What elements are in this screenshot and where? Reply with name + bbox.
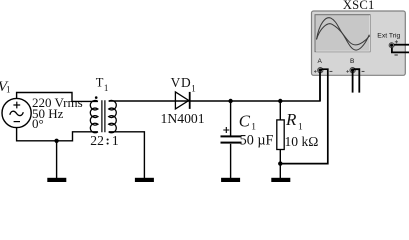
scope waveform trace 1 [317, 18, 370, 50]
svg-text:1: 1 [298, 122, 303, 132]
svg-text::: : [106, 132, 110, 147]
wire R1 bottom [279, 150, 281, 179]
node junction top of R1 [278, 99, 282, 103]
scope waveform trace 2 [317, 24, 370, 45]
svg-text:1: 1 [251, 122, 256, 132]
capacitor C1 plates [221, 135, 242, 143]
node junction R1 bottom [278, 161, 282, 165]
svg-text:0°: 0° [32, 116, 44, 131]
wire ground tap V1 [56, 141, 58, 179]
wire Ext Trig + off-canvas [394, 44, 409, 46]
diode VD1 [175, 92, 189, 109]
svg-text:T: T [96, 75, 104, 89]
svg-text:B: B [350, 58, 354, 65]
svg-text:22: 22 [90, 133, 104, 148]
svg-text:1: 1 [112, 134, 119, 149]
wire A+ lower segment overlay [319, 72, 321, 101]
terminal B [346, 68, 364, 73]
wire B+ stub [352, 71, 354, 93]
polarity + of C1 [223, 127, 229, 133]
wire Ext Trig - off-canvas [392, 48, 409, 53]
phase dot primary [95, 96, 98, 99]
wire secondary bottom to ground [109, 132, 145, 179]
svg-text:10 kΩ: 10 kΩ [285, 134, 319, 149]
wire top rail: secondary top to scope A+ [109, 72, 320, 101]
svg-text:C: C [239, 112, 251, 131]
wire C1 top [230, 101, 232, 136]
svg-text:R: R [285, 110, 297, 129]
svg-text:A: A [318, 58, 323, 65]
node junction top of C1 [228, 99, 232, 103]
oscilloscope XSC1 body [312, 11, 406, 75]
transformer T1 primary winding [90, 100, 98, 132]
wire source top to transformer primary top [17, 93, 98, 102]
resistor R1 body [277, 120, 284, 150]
svg-text:1: 1 [104, 83, 109, 93]
wire B- stub [354, 69, 360, 92]
wire A- : scope to R1 bottom [280, 69, 328, 163]
ground under C1 [221, 178, 240, 182]
transformer T1 secondary winding [109, 100, 117, 132]
Ext Trig terminal [389, 40, 398, 55]
svg-text:1: 1 [6, 84, 11, 94]
ground under V1 [47, 178, 66, 182]
transformer core lines [102, 100, 105, 132]
oscilloscope screen [315, 15, 370, 52]
terminal A [314, 68, 332, 73]
svg-text:1N4001: 1N4001 [161, 111, 205, 126]
ground under transformer [135, 178, 154, 182]
svg-text:XSC1: XSC1 [343, 0, 375, 12]
svg-text:Ext Trig: Ext Trig [377, 32, 400, 39]
wire source bottom loop [17, 128, 98, 141]
svg-text:VD: VD [171, 75, 192, 90]
node junction at ground tap [54, 139, 58, 143]
ground under R1 [271, 178, 290, 182]
wire C1 bottom to ground [230, 144, 232, 179]
wire R1 top [279, 101, 281, 120]
voltage source V1 [2, 98, 31, 127]
svg-text:50 µF: 50 µF [240, 132, 274, 148]
svg-text:1: 1 [191, 84, 196, 94]
